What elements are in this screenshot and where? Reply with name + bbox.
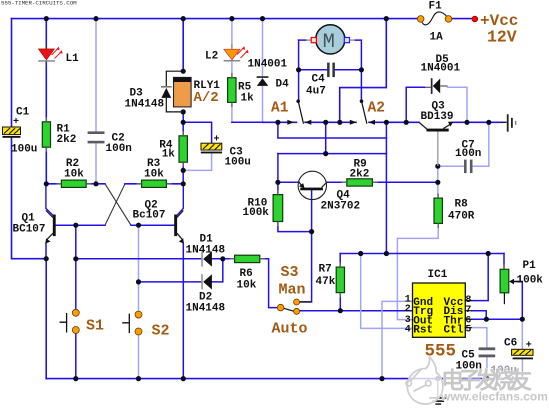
resistor R9 — [347, 179, 373, 186]
junction dots Q3 collector / R9 node — [435, 164, 440, 169]
switch S3 — [277, 299, 311, 314]
switch S2 — [122, 311, 142, 335]
svg-text:L2: L2 — [205, 51, 218, 63]
resistor R2 — [61, 180, 86, 187]
svg-text:R8: R8 — [455, 199, 469, 211]
svg-text:C4: C4 — [312, 74, 326, 86]
junction dots base lines — [73, 223, 78, 228]
relay contact A1 — [287, 99, 311, 124]
LED L2 — [224, 44, 249, 62]
wire D2 row from S2 line — [139, 281, 202, 283]
wire P1 top from +V line — [503, 254, 505, 270]
potentiometer P1 wiper arrow — [509, 279, 514, 285]
wire L1 branch top — [45, 19, 47, 48]
svg-text:100n: 100n — [455, 148, 481, 160]
wire R7 bottom to Trg line — [339, 293, 341, 311]
wire Q4 collector to R9 — [327, 181, 347, 183]
ground symbol bottom — [429, 379, 447, 405]
junction dots flip-flop collectors — [44, 181, 49, 186]
svg-text:2k2: 2k2 — [350, 169, 370, 181]
junction dots Thr row — [484, 317, 489, 322]
wire Ctl pin 5 to C5 — [472, 328, 487, 348]
wire bottom ground rail — [46, 378, 522, 380]
wire mid horizontal line under contacts — [278, 153, 387, 155]
wire P1 wiper to timing node — [513, 282, 522, 320]
svg-text:1A: 1A — [430, 32, 444, 44]
transistor Q3 — [419, 122, 453, 166]
fuse F1 — [417, 12, 451, 25]
wire left rail from top to C1 — [11, 19, 13, 127]
svg-text:BD139: BD139 — [421, 111, 454, 123]
wire R5 bottom lead — [231, 102, 233, 122]
wire motor left lead horizontal — [299, 39, 306, 41]
wire fuse to +Vcc terminal — [451, 18, 471, 20]
svg-text:2: 2 — [405, 304, 411, 315]
wire Q2 base node down to S2 — [138, 225, 140, 311]
wire C2 branch top — [95, 19, 97, 132]
LED L1 — [38, 45, 62, 66]
wire crossover R3 to Q1 base — [105, 184, 125, 225]
svg-text:P1: P1 — [523, 260, 537, 272]
svg-text:1k: 1k — [241, 93, 255, 105]
wire Q1 emitter node down to bottom rail — [45, 259, 47, 379]
wire contact row A2 right to Q3 base — [369, 121, 419, 123]
potentiometer P1 body — [500, 269, 509, 293]
wire motor right lead — [355, 40, 361, 100]
svg-text:5: 5 — [465, 325, 471, 336]
svg-text:Bc107: Bc107 — [133, 210, 166, 222]
wire L1 to R1 — [45, 62, 47, 122]
wire Q3 emitter row to ground — [452, 121, 501, 123]
svg-text:2N3702: 2N3702 — [321, 201, 361, 213]
wire Vcc pin 8 branch — [472, 254, 488, 301]
resistor R5 — [228, 78, 236, 103]
junction dot R7 bottom — [338, 308, 343, 313]
svg-text:S2: S2 — [152, 323, 170, 340]
svg-text:100u: 100u — [11, 144, 37, 156]
svg-text:10k: 10k — [144, 168, 164, 180]
resistor R10 — [273, 195, 283, 222]
junction dots motor / C4 — [296, 67, 301, 72]
wire S2 bottom to rail — [138, 335, 140, 379]
wire Q2 emitter down to bottom rail — [182, 244, 184, 379]
wire A-bracket connecting outer contacts — [278, 122, 387, 138]
junction dot mid line — [323, 151, 328, 156]
wire D4 anode down to contact row — [262, 86, 264, 122]
wire +V line above 555 — [340, 253, 504, 255]
wire timing node down to C6 — [521, 319, 523, 349]
junction dots contact row — [275, 120, 280, 125]
junction dots relay column — [181, 69, 186, 74]
wire crossover R2 to Q2 base — [105, 184, 131, 225]
wire R4/C3 branch — [183, 122, 211, 143]
svg-text:Auto: Auto — [272, 321, 308, 338]
wire C3 bottom to R4 bottom node — [183, 153, 211, 170]
wire motor left lead down to A1 blade — [298, 40, 300, 100]
svg-text:C6: C6 — [504, 338, 517, 350]
svg-text:Ctl: Ctl — [444, 324, 464, 336]
wire R1 bottom to Q1 collector node — [45, 147, 47, 184]
svg-text:10k: 10k — [64, 168, 84, 180]
svg-text:S3: S3 — [281, 264, 299, 281]
wire R3 right to Q2 collector node — [167, 183, 184, 185]
svg-text:www.elecfans.com: www.elecfans.com — [440, 390, 548, 404]
wire Q1 emitter down to ground bus — [45, 244, 47, 259]
svg-text:R6: R6 — [240, 268, 253, 280]
capacitor C7 — [464, 160, 473, 174]
relay RLY1 — [174, 77, 192, 107]
motor M1 — [306, 25, 355, 54]
wire relay bottom node to R4/C3 node — [182, 112, 184, 136]
wire R9 right to R8 node — [373, 181, 438, 183]
pin 7 stub — [465, 310, 472, 312]
resistor R8 — [434, 198, 442, 223]
+Vcc terminal — [472, 16, 478, 22]
diode D2 — [201, 274, 212, 289]
svg-text:2k2: 2k2 — [57, 134, 77, 146]
wire left vertical to Q4 emitter node — [277, 154, 279, 183]
svg-text:R7: R7 — [319, 264, 332, 276]
wire C2 bottom to R2 node — [95, 144, 97, 184]
svg-text:A/2: A/2 — [194, 90, 219, 106]
wire R8 bottom to 555 Out pin — [397, 223, 438, 319]
wire Gnd pin 1 to ground rail — [382, 301, 412, 378]
svg-text:4u7: 4u7 — [306, 86, 326, 98]
wire D2 anode up to D1 anode node — [212, 259, 223, 282]
svg-text:D4: D4 — [276, 79, 290, 91]
resistor R4 — [179, 136, 187, 162]
wire R4 bottom to Q2 collector node — [182, 162, 184, 184]
wire R10 top lead — [277, 182, 279, 194]
wire +V feed from top rail to A2 left contact — [340, 19, 387, 123]
svg-text:100k: 100k — [517, 275, 544, 287]
wire C6 bottom to ground rail — [521, 359, 523, 378]
svg-text:+: + — [214, 135, 220, 146]
ground symbol right (sideways) — [502, 114, 517, 132]
svg-text:1N4148: 1N4148 — [186, 303, 226, 315]
wire crossover to R3 left — [125, 183, 142, 185]
wire D1 anode to R6 node — [212, 258, 235, 260]
wire Q4 emitter left — [278, 181, 299, 183]
junction dots emitter/ground bus — [44, 256, 49, 261]
wire C7 left from Q3 collector node — [438, 165, 464, 167]
svg-text:S1: S1 — [86, 318, 104, 335]
svg-text:1k: 1k — [162, 148, 176, 160]
watermark logo — [406, 357, 548, 405]
resistor R6 — [235, 255, 260, 262]
wire Q1 base to crossover — [56, 224, 105, 226]
resistor R3 — [142, 180, 167, 187]
wire C5 bottom to ground rail — [486, 357, 488, 378]
junction dots Q4 area — [275, 180, 280, 185]
wire Q2 base from crossover — [131, 224, 174, 226]
wire center contact vertical — [325, 122, 327, 153]
wire contact row between blades — [305, 121, 356, 123]
svg-text:100n: 100n — [106, 143, 132, 155]
svg-text:555-TIMER-CIRCUITS.COM: 555-TIMER-CIRCUITS.COM — [1, 0, 77, 7]
diode D1 — [201, 251, 212, 266]
wire relay branch from top rail — [182, 19, 184, 72]
wire resistor lead stubs — [46, 73, 504, 297]
wire D5 anode side down to Q3 emitter node — [448, 87, 468, 122]
switch S1 — [60, 309, 80, 333]
junction dots bottom rail — [73, 376, 78, 381]
wire R6 right to S3 common — [260, 259, 277, 308]
capacitor C2 — [88, 131, 105, 143]
svg-text:470R: 470R — [448, 211, 475, 223]
wire D1 row from Q1 base line — [76, 258, 201, 260]
svg-text:C1: C1 — [16, 107, 30, 119]
transistor Q1 — [45, 210, 56, 243]
junction dots +V line — [358, 251, 363, 256]
pin 5 stub — [465, 327, 472, 329]
wire contact row A1 left — [263, 121, 297, 123]
wire Q3 collector node down to R9/R8 node — [437, 166, 439, 198]
diode D5 — [425, 78, 448, 94]
svg-text:M: M — [323, 31, 335, 54]
wire C1 negative down and over to Q1 emitter node — [12, 138, 47, 259]
wire C4 row right — [335, 69, 361, 71]
wire Thr pin 6 row — [472, 318, 523, 320]
svg-text:Rst: Rst — [413, 324, 433, 336]
transistor Q2 — [174, 210, 184, 243]
wire L2 branch from top rail — [231, 19, 233, 48]
wire Q2 collector — [177, 184, 183, 216]
wire D5 loop — [406, 87, 425, 122]
wire S1 bottom to rail — [75, 333, 77, 378]
svg-text:1N4001: 1N4001 — [248, 59, 288, 71]
wire right bracket vertical down to Vcc line — [385, 122, 387, 253]
junction dots diode rows — [220, 256, 225, 261]
svg-text:IC1: IC1 — [428, 269, 448, 281]
op-amp U1 IC1 555 timer box — [413, 283, 466, 337]
wire Q4 base down to S3 Man contact — [300, 190, 312, 302]
svg-text:47k: 47k — [316, 276, 336, 288]
wire Q1 collector — [46, 184, 53, 216]
wire R10 bottom to Q4 base line — [278, 222, 312, 232]
svg-text:10k: 10k — [237, 280, 257, 292]
capacitor C4 — [327, 63, 335, 78]
diode D4 — [257, 76, 269, 86]
svg-text:1N4148: 1N4148 — [186, 245, 226, 257]
wire top +V rail — [12, 18, 421, 20]
capacitor C3 electrolytic — [201, 135, 222, 154]
wire R7 top lead — [339, 254, 341, 268]
pin 6 stub — [465, 318, 472, 320]
wire Rst branch down from +V line to pin 4 — [361, 254, 413, 329]
wire D4 branch from top rail — [262, 19, 264, 77]
svg-text:Man: Man — [279, 282, 306, 299]
capacitor C6 electrolytic — [512, 340, 533, 359]
diode D3 — [161, 71, 183, 112]
junction dots top rail — [44, 16, 49, 21]
wire S3 Auto contact to 555 Trg pin 2 — [300, 310, 412, 312]
wire Dis pin 7 to Thr net — [472, 311, 486, 320]
svg-text:A2: A2 — [368, 101, 385, 117]
svg-text:F1: F1 — [429, 1, 443, 13]
pin 8 stub — [465, 300, 472, 302]
svg-text:1N4148: 1N4148 — [125, 99, 165, 111]
svg-text:L1: L1 — [66, 53, 80, 65]
svg-text:+: + — [526, 340, 532, 351]
svg-text:12V: 12V — [487, 27, 517, 46]
wire Q1 collector node to R2 — [46, 183, 61, 185]
wire C4 row left — [299, 69, 327, 71]
transistor Q4 — [298, 171, 327, 199]
svg-text:1N4001: 1N4001 — [421, 63, 461, 75]
svg-text:100k: 100k — [243, 207, 270, 219]
capacitor C5 — [479, 347, 496, 357]
wire R2 right to crossover — [87, 183, 105, 185]
svg-text:A1: A1 — [271, 100, 289, 116]
wire R5 over to D4 node — [232, 121, 263, 123]
svg-text:100u: 100u — [225, 157, 251, 169]
resistor R1 — [42, 122, 50, 147]
relay contact A2 — [350, 99, 375, 124]
svg-text:4: 4 — [405, 324, 411, 335]
wire C7 right up to emitter row — [473, 122, 489, 166]
svg-text:BC107: BC107 — [13, 224, 46, 236]
potentiometer P1 bottom stub — [503, 293, 505, 304]
capacitor C1 electrolytic — [3, 117, 21, 138]
wire Q1 base node down to S1 — [75, 225, 77, 309]
resistor R7 — [336, 267, 344, 293]
wire L2 to R5 — [231, 61, 233, 77]
